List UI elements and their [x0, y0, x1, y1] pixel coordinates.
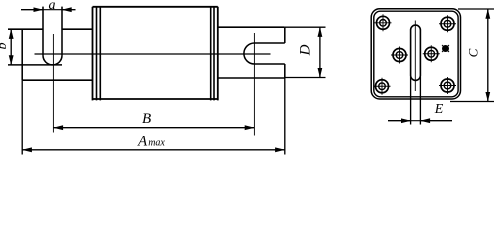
bolt hole mid-right: [423, 45, 440, 62]
right blade slot: [254, 42, 284, 44]
svg-text:b: b: [0, 43, 10, 50]
bolt hole top-right: [439, 15, 456, 32]
bolt hole bottom-right: [439, 77, 456, 94]
dimension B: [53, 127, 254, 129]
left end cap: [92, 7, 94, 101]
extension line A right: [284, 78, 286, 155]
blade slot centerline: [414, 21, 416, 92]
E extension lines: [410, 77, 412, 125]
right slot vertical centerline: [253, 33, 255, 136]
svg-text:E: E: [434, 102, 444, 117]
bolt hole bottom-left: [374, 78, 391, 95]
axis centerline: [35, 53, 271, 55]
svg-text:D: D: [298, 44, 314, 56]
dimension C: [487, 9, 489, 102]
extension line A left: [21, 80, 23, 154]
body bottom edge: [93, 98, 218, 100]
svg-text:a: a: [49, 0, 56, 13]
end view inner plate line: [374, 11, 458, 97]
dimension E: [388, 120, 411, 122]
right blade outline: [218, 26, 285, 28]
b extension line under slot arc: [8, 64, 62, 66]
bolt hole mid-left: [391, 47, 408, 64]
indicator dot: [442, 45, 449, 52]
dimension a: [21, 9, 43, 11]
left blade slot: [42, 7, 44, 56]
svg-text:C: C: [466, 48, 481, 57]
end view outer plate: [371, 9, 460, 99]
dimension A max: [22, 149, 285, 151]
left blade outline: [8, 28, 43, 30]
center blade slot (stadium): [411, 25, 421, 80]
body top edge: [93, 6, 218, 8]
bolt hole top-left: [375, 14, 392, 31]
svg-text:max: max: [148, 138, 165, 149]
dimension b: [10, 29, 12, 65]
dimension D: [285, 26, 326, 28]
svg-text:A: A: [137, 134, 148, 150]
svg-text:B: B: [142, 111, 151, 127]
dimension C extension top: [458, 8, 494, 10]
dimension C extension bottom: [450, 101, 494, 103]
left slot vertical centerline: [52, 34, 54, 133]
right end cap: [210, 7, 212, 101]
